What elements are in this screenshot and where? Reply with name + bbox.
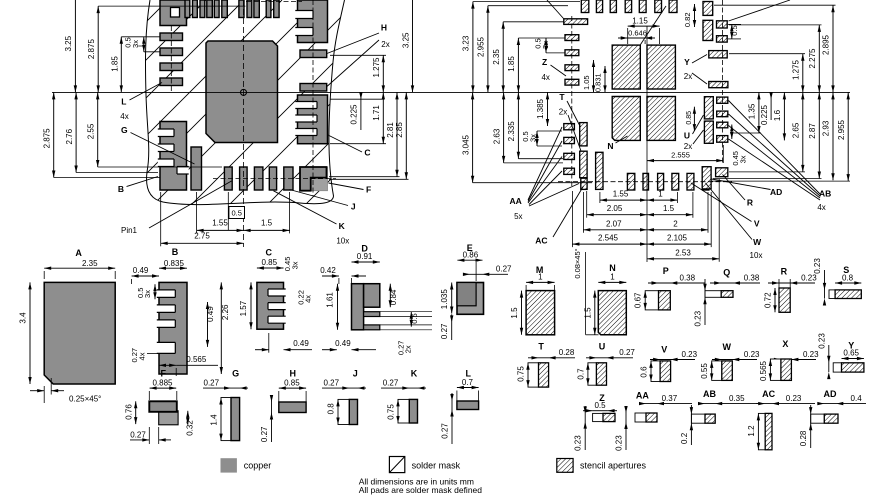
- svg-text:0.27: 0.27: [204, 378, 220, 387]
- detail J dim 0.8: [336, 399, 339, 406]
- svg-text:2.26: 2.26: [221, 304, 230, 320]
- detail H pad: [279, 402, 306, 413]
- detail X dim 0.565: [769, 359, 772, 366]
- detail H dim 0.27: [271, 396, 273, 442]
- detail E pad: [457, 283, 484, 315]
- detail Q aperture: [721, 291, 733, 298]
- svg-text:2.63: 2.63: [492, 128, 501, 144]
- svg-text:0.4: 0.4: [851, 394, 863, 403]
- detail C dim 1.57: [250, 282, 252, 329]
- detail A dim 3.4: [29, 282, 31, 384]
- detail AD aperture: [824, 414, 838, 423]
- legend copper swatch: [221, 458, 237, 472]
- detail M dim 1.5: [521, 291, 523, 335]
- svg-text:2: 2: [673, 219, 678, 228]
- svg-text:N: N: [609, 263, 616, 273]
- svg-text:T: T: [538, 342, 544, 352]
- apertures T 2x tall: [580, 123, 587, 146]
- detail C dim 0.85: [257, 267, 284, 269]
- detail AC dim 1.2: [757, 413, 760, 420]
- detail AC aperture: [765, 413, 772, 449]
- svg-text:AB: AB: [703, 389, 716, 399]
- detail Z dim 0.23: [584, 406, 586, 450]
- svg-text:0.27: 0.27: [619, 348, 635, 357]
- svg-text:1.55: 1.55: [613, 190, 629, 199]
- svg-text:AB: AB: [819, 189, 831, 199]
- detail K ext box: [398, 399, 409, 423]
- detail N aperture: [598, 291, 626, 335]
- svg-text:3x: 3x: [738, 155, 747, 163]
- svg-text:0.23: 0.23: [574, 435, 583, 451]
- svg-text:0.646: 0.646: [628, 28, 647, 37]
- centerline right pad column: [312, 0, 314, 196]
- detail P dim 0.38: [648, 282, 705, 284]
- svg-text:0.84: 0.84: [389, 289, 398, 305]
- detail C dim 0.49 bottom: [255, 349, 269, 351]
- detail AA aperture: [646, 413, 657, 422]
- svg-text:L: L: [121, 97, 126, 107]
- svg-text:1.2: 1.2: [747, 425, 756, 437]
- center origin marker: [241, 89, 247, 95]
- dim 0.5 boxed, bottom left view: [227, 192, 229, 230]
- centerline bottom pad row: [213, 178, 336, 180]
- center stencil aperture top-right: [647, 45, 675, 89]
- svg-text:2x: 2x: [684, 72, 692, 81]
- svg-text:3x: 3x: [131, 40, 140, 48]
- comb pad D, top-left: [160, 0, 187, 26]
- svg-text:0.835: 0.835: [164, 259, 185, 268]
- svg-text:2.875: 2.875: [87, 39, 96, 60]
- main horizontal centerline: [52, 91, 850, 93]
- detail Q ext box: [705, 291, 721, 298]
- svg-text:0.08×45°: 0.08×45°: [573, 248, 582, 278]
- detail B dim 0.5 3x: [154, 284, 156, 299]
- detail T dim 0.75: [526, 363, 529, 370]
- svg-text:Y: Y: [684, 57, 690, 67]
- detail Z dim 0.5: [583, 410, 593, 412]
- svg-text:stencil apertures: stencil apertures: [580, 461, 647, 471]
- detail E dim 0.27 bottom: [451, 314, 453, 340]
- dim 2.87 lower-right: [818, 92, 820, 178]
- svg-text:0.27: 0.27: [383, 378, 399, 387]
- svg-text:0.85: 0.85: [686, 111, 693, 125]
- svg-text:2.85: 2.85: [395, 122, 404, 138]
- dim 2.335 lower-left: [517, 92, 519, 158]
- svg-text:1.85: 1.85: [110, 56, 119, 72]
- svg-text:0.565: 0.565: [759, 360, 768, 381]
- detail E dim 0.27: [475, 262, 477, 281]
- dim 2.76 lower-left: [75, 92, 77, 172]
- detail P dim 0.67: [644, 291, 647, 298]
- detail G dim 1.4: [219, 398, 222, 405]
- svg-text:0.86: 0.86: [463, 250, 479, 259]
- svg-text:0.27: 0.27: [260, 426, 269, 442]
- center pad A, left view: [206, 41, 278, 143]
- dim 2.555 mid-right: [647, 160, 723, 162]
- svg-text:AD: AD: [824, 389, 837, 399]
- svg-text:0.27: 0.27: [130, 430, 146, 439]
- pad F mask-defined outline: [300, 167, 327, 191]
- detail R aperture: [779, 288, 790, 312]
- detail B dim 0.565: [175, 368, 177, 376]
- detail V dim 0.23: [650, 359, 695, 361]
- svg-text:0.8: 0.8: [327, 403, 336, 415]
- svg-text:X: X: [782, 339, 788, 349]
- detail V ext box: [651, 361, 660, 382]
- detail T ext box: [528, 363, 539, 387]
- detail D pad comb: [352, 284, 364, 330]
- pads H 2x, right column: [300, 50, 327, 58]
- detail Z aperture: [603, 413, 615, 421]
- svg-text:A: A: [75, 248, 82, 258]
- dim 0.85 bracket tall pads: [693, 107, 695, 131]
- svg-text:5x: 5x: [514, 212, 522, 221]
- bottom dim rows, right view: [600, 199, 647, 201]
- detail D dim 1.61: [337, 284, 339, 330]
- dim 1.15 top center: [628, 25, 660, 27]
- svg-text:0.27: 0.27: [440, 323, 449, 339]
- svg-text:0.37: 0.37: [662, 394, 678, 403]
- centerline bottom row dashed, right view: [558, 181, 732, 183]
- dim 2.75 bottom: [161, 242, 244, 244]
- dim 2.93 lower-right: [832, 92, 834, 180]
- ext lines bottom dims, right view: [599, 192, 601, 203]
- dim 1.71 right of left view: [382, 92, 384, 143]
- detail D dim 0.49: [322, 349, 337, 351]
- centerline vertical, right view: [646, 26, 648, 262]
- legend stencil apertures swatch: [557, 459, 573, 473]
- svg-text:1.55: 1.55: [212, 218, 228, 227]
- svg-text:B: B: [172, 247, 179, 257]
- detail H dim 0.85: [279, 387, 306, 389]
- svg-text:1.6: 1.6: [773, 109, 782, 121]
- svg-text:Pin1: Pin1: [121, 226, 138, 235]
- dim 1.05 center-left: [593, 60, 595, 92]
- apertures AA small, bottom-left cluster: [564, 124, 575, 130]
- svg-text:1: 1: [610, 272, 615, 281]
- svg-text:B: B: [118, 184, 124, 194]
- dim 0.5 3x left: [143, 37, 145, 52]
- dim 2.955 left: [487, 6, 489, 93]
- detail W dim 0.55: [710, 361, 713, 368]
- svg-text:C: C: [266, 248, 273, 258]
- svg-text:U: U: [599, 342, 606, 352]
- svg-text:1.5: 1.5: [510, 307, 519, 319]
- svg-text:0.27: 0.27: [324, 378, 340, 387]
- detail L pad: [457, 401, 479, 410]
- svg-text:4x: 4x: [541, 73, 549, 82]
- apertures right column top: [703, 2, 713, 16]
- detail V dim 0.6: [649, 361, 652, 368]
- top row pads K, left view: [185, 0, 190, 18]
- detail U aperture: [596, 363, 606, 385]
- svg-text:2.76: 2.76: [65, 128, 74, 144]
- centerline vertical, left view: [243, 0, 245, 247]
- centerline top pad row: [246, 1, 302, 3]
- dim 1.55 bottom: [197, 229, 244, 231]
- svg-text:0.42: 0.42: [320, 266, 336, 275]
- detail B pad comb: [159, 282, 187, 374]
- svg-text:K: K: [411, 369, 418, 379]
- detail W aperture: [722, 361, 733, 381]
- svg-text:1.5: 1.5: [583, 307, 592, 319]
- dim 3.045 lower-left, right view: [472, 92, 474, 182]
- comb pad, top-right, left view: [298, 0, 328, 43]
- aperture AC top-left long: [564, 19, 588, 25]
- svg-text:2.53: 2.53: [675, 248, 691, 257]
- svg-text:0.49: 0.49: [293, 339, 309, 348]
- detail U ext box: [588, 363, 597, 385]
- detail AB dim 0.2: [690, 407, 693, 414]
- detail E dim 0.86: [457, 259, 482, 261]
- dim 2.81: [396, 92, 398, 176]
- svg-text:1.4: 1.4: [210, 414, 219, 426]
- leader to aperture M: [641, 6, 667, 45]
- detail K pad: [409, 399, 417, 423]
- svg-text:1.15: 1.15: [632, 16, 648, 25]
- svg-text:1: 1: [658, 190, 663, 199]
- detail G pad: [231, 398, 240, 441]
- svg-text:0.75: 0.75: [387, 404, 396, 420]
- svg-text:2.35: 2.35: [492, 49, 501, 65]
- svg-text:2x: 2x: [684, 142, 692, 151]
- svg-text:1.035: 1.035: [440, 289, 449, 310]
- svg-text:2x: 2x: [403, 345, 412, 353]
- svg-text:3.25: 3.25: [64, 35, 73, 51]
- svg-text:0.76: 0.76: [124, 404, 133, 420]
- detail L dim 0.7: [457, 387, 479, 389]
- detail U dim 0.7: [586, 363, 589, 370]
- detail F dim 0.32: [187, 411, 189, 425]
- svg-text:1.85: 1.85: [507, 56, 516, 72]
- dim 0.225 right of left view: [360, 92, 362, 130]
- detail B dim 0.835: [159, 267, 187, 269]
- svg-text:10x: 10x: [750, 251, 763, 260]
- svg-text:3x: 3x: [528, 134, 537, 142]
- dim 0.5 right-top: [731, 24, 733, 39]
- detail S dim 0.8: [835, 282, 861, 284]
- svg-text:F: F: [366, 185, 371, 195]
- svg-text:V: V: [754, 219, 760, 229]
- leader top-left aperture: [547, 0, 564, 19]
- top row apertures, right view: [581, 0, 589, 13]
- detail F dim 0.885: [150, 387, 177, 389]
- dim 0.5 3x lower-left, right view: [536, 131, 538, 146]
- svg-text:F: F: [161, 369, 167, 379]
- detail Q dim 0.23: [704, 279, 706, 325]
- detail B dim 0.49: [132, 275, 159, 277]
- svg-text:2x: 2x: [381, 40, 389, 49]
- detail N dim 1.5: [594, 291, 596, 335]
- dim 0.831 center-left: [604, 66, 606, 92]
- solder mask hatch lines, left view: [0, 0, 510, 215]
- detail P aperture: [659, 291, 671, 310]
- svg-text:2.335: 2.335: [507, 121, 516, 142]
- apertures right column bottom: [704, 97, 713, 119]
- svg-text:H: H: [381, 23, 387, 33]
- svg-text:0.67: 0.67: [634, 292, 643, 308]
- svg-text:0.6: 0.6: [640, 366, 649, 378]
- svg-text:0.885: 0.885: [152, 378, 173, 387]
- svg-text:2.07: 2.07: [606, 219, 622, 228]
- svg-text:All pads are solder mask defin: All pads are solder mask defined: [359, 485, 483, 495]
- svg-text:0.82: 0.82: [683, 12, 692, 27]
- svg-text:0.23: 0.23: [803, 350, 819, 359]
- svg-text:V: V: [661, 345, 667, 355]
- center stencil aperture M top-left: [612, 45, 640, 89]
- detail P ext box: [645, 291, 658, 310]
- svg-text:0.23: 0.23: [813, 258, 822, 274]
- dim 2.875 upper: [97, 6, 99, 92]
- dim 1.6 lower-right: [783, 92, 785, 140]
- svg-text:R: R: [781, 267, 788, 277]
- detail S dim 0.23: [824, 270, 826, 299]
- detail D teeth ext lines: [380, 311, 432, 313]
- svg-text:2.545: 2.545: [598, 234, 619, 243]
- svg-text:C: C: [364, 147, 370, 157]
- svg-text:3.25: 3.25: [401, 32, 410, 48]
- svg-text:AC: AC: [535, 236, 547, 246]
- svg-text:3.045: 3.045: [461, 134, 470, 155]
- aperture wide, bottom-right: [716, 168, 728, 177]
- detail S aperture: [835, 290, 861, 299]
- dim 0.646 top center: [618, 37, 628, 39]
- detail AA dim 0.23: [625, 406, 627, 450]
- detail C pad comb: [257, 282, 284, 329]
- svg-text:0.5: 0.5: [730, 25, 739, 35]
- svg-text:0.23: 0.23: [786, 394, 802, 403]
- svg-text:H: H: [290, 369, 297, 379]
- detail N dim 1: [598, 281, 626, 283]
- pad F copper, bottom-right, left view: [300, 167, 328, 191]
- detail AD dim 0.4: [818, 403, 866, 405]
- dim 0.5 3x upper-left, right view: [545, 38, 547, 53]
- pad G, thin vertical: [191, 147, 202, 190]
- svg-text:0.27: 0.27: [496, 264, 512, 273]
- detail R dim 0.72: [774, 288, 776, 312]
- detail X dim 0.23: [771, 359, 816, 361]
- svg-text:3.4: 3.4: [19, 312, 28, 324]
- detail AD dim 0.28: [809, 407, 812, 414]
- dim 1.35 lower-right: [758, 92, 760, 133]
- svg-text:0.49: 0.49: [206, 306, 215, 322]
- dim 0.225 lower-right: [770, 92, 772, 120]
- svg-text:2.05: 2.05: [607, 204, 623, 213]
- svg-text:0.23: 0.23: [744, 350, 760, 359]
- dim 1.385: [547, 92, 549, 126]
- svg-text:0.32: 0.32: [185, 420, 194, 436]
- detail W dim 0.23: [712, 359, 757, 361]
- svg-text:0.5: 0.5: [410, 313, 419, 323]
- detail Y aperture: [842, 363, 864, 372]
- detail T aperture: [539, 363, 549, 387]
- svg-text:K: K: [339, 221, 346, 231]
- detail M aperture: [526, 291, 555, 335]
- svg-text:0.565: 0.565: [186, 355, 207, 364]
- pads L 4x, left column: [160, 33, 183, 41]
- svg-text:2.105: 2.105: [667, 234, 688, 243]
- detail Q dim 0.38: [710, 282, 760, 284]
- svg-text:R: R: [747, 198, 753, 208]
- svg-text:3x: 3x: [290, 261, 299, 269]
- apertures Z 4x: [565, 35, 579, 41]
- apertures Y 2x: [709, 51, 727, 58]
- dim 2.895 right side: [832, 5, 834, 92]
- svg-text:solder mask: solder mask: [412, 461, 461, 471]
- svg-text:G: G: [232, 369, 239, 379]
- detail Y dim 0.23: [828, 345, 830, 372]
- svg-text:1.61: 1.61: [326, 292, 335, 308]
- dim 0.82 right-top: [694, 4, 696, 27]
- detail X ext box: [770, 359, 781, 380]
- svg-text:2.75: 2.75: [194, 231, 210, 240]
- detail B dim 2.26: [220, 282, 222, 374]
- svg-text:J: J: [353, 369, 358, 379]
- centerline right pad column dashed: [722, 0, 724, 163]
- detail AA dim 0.37: [640, 403, 692, 405]
- svg-text:0.49: 0.49: [335, 339, 351, 348]
- detail L dim 0.27: [451, 393, 453, 444]
- svg-text:0.225: 0.225: [349, 104, 358, 125]
- aperture AD tall corner: [702, 167, 711, 189]
- svg-text:N: N: [607, 141, 613, 151]
- bottom row pads K, left view: [224, 167, 232, 190]
- dim 2.55 lower-left: [97, 92, 99, 167]
- svg-text:1.57: 1.57: [239, 300, 248, 316]
- detail AB aperture: [705, 414, 715, 423]
- svg-text:0.27: 0.27: [441, 423, 450, 439]
- detail S ext box: [829, 290, 835, 299]
- detail V aperture: [660, 361, 671, 382]
- detail W ext box: [712, 361, 722, 381]
- legend solder mask swatch: [389, 457, 404, 473]
- svg-text:1.275: 1.275: [372, 57, 381, 78]
- svg-text:0.7: 0.7: [462, 378, 474, 387]
- dim 1.5 bottom: [244, 229, 290, 231]
- svg-text:0.49: 0.49: [133, 266, 149, 275]
- dim 1.85 left: [517, 38, 519, 92]
- detail Y dim 0.65: [842, 358, 864, 360]
- svg-text:1.71: 1.71: [372, 105, 381, 121]
- dim 3.25 right of left view: [412, 0, 414, 92]
- svg-text:1.385: 1.385: [536, 98, 545, 119]
- svg-text:1.35: 1.35: [748, 103, 757, 119]
- detail X aperture: [781, 359, 792, 380]
- svg-text:4x: 4x: [138, 352, 147, 360]
- detail U dim 0.27: [586, 357, 633, 359]
- ext lines lower-left: [54, 177, 160, 179]
- svg-text:0.91: 0.91: [357, 252, 373, 261]
- svg-text:G: G: [121, 125, 128, 135]
- svg-text:3.23: 3.23: [462, 35, 471, 51]
- svg-text:0.65: 0.65: [843, 349, 859, 358]
- svg-text:3x: 3x: [143, 290, 152, 298]
- svg-text:0.23: 0.23: [615, 435, 624, 451]
- svg-text:J: J: [351, 201, 356, 211]
- detail K dim 0.75: [396, 399, 399, 406]
- svg-text:2.895: 2.895: [822, 34, 831, 55]
- detail J dim 0.27: [322, 387, 366, 389]
- board outline break curve, left view: [145, 0, 344, 205]
- svg-text:10x: 10x: [336, 236, 349, 245]
- dim 3.23 left of right view: [472, 2, 474, 93]
- detail A chamfer dim 0.25x45: [43, 386, 45, 403]
- svg-text:U: U: [684, 131, 690, 141]
- detail G dim 0.27: [203, 387, 248, 389]
- svg-text:0.35: 0.35: [729, 394, 745, 403]
- detail AA ext box: [635, 413, 646, 422]
- svg-text:W: W: [722, 342, 731, 352]
